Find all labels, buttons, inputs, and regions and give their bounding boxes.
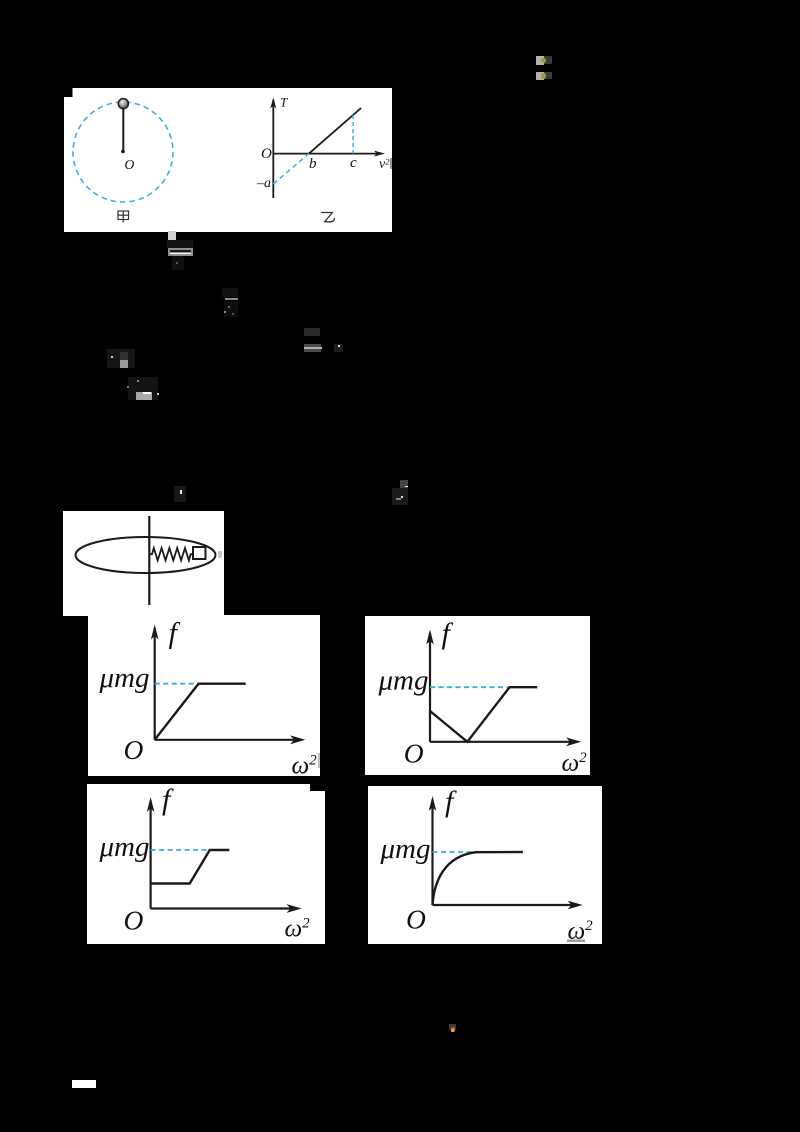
svg-text:O: O — [404, 738, 424, 769]
svg-text:–a: –a — [256, 176, 271, 191]
svg-text:O: O — [406, 904, 426, 935]
svg-text:O: O — [124, 905, 144, 936]
svg-text:ω2: ω2 — [285, 916, 311, 943]
svg-text:ω2: ω2 — [291, 753, 317, 777]
svg-text:v2: v2 — [379, 157, 390, 173]
svg-text:T: T — [280, 95, 288, 110]
svg-text:μmg: μmg — [98, 662, 149, 694]
svg-text:O: O — [123, 734, 143, 765]
svg-text:μmg: μmg — [378, 665, 429, 697]
svg-text:f: f — [168, 617, 180, 650]
svg-text:ω2: ω2 — [562, 750, 588, 775]
svg-text:f: f — [445, 786, 457, 818]
svg-text:O: O — [125, 157, 135, 172]
svg-text:μmg: μmg — [380, 833, 431, 865]
svg-text:O: O — [261, 146, 272, 162]
svg-text:f: f — [162, 784, 174, 816]
svg-text:c: c — [350, 155, 357, 171]
svg-text:μmg: μmg — [99, 831, 150, 863]
svg-text:b: b — [309, 156, 317, 172]
svg-text:f: f — [442, 617, 454, 650]
